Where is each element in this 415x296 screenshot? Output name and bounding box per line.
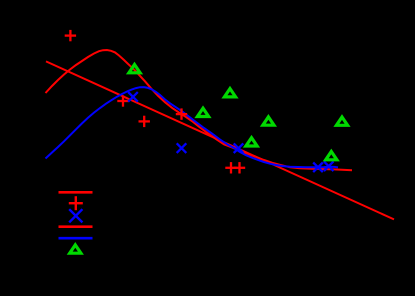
green triangle marker 6: [336, 117, 347, 125]
green triangle marker 5: [263, 117, 274, 125]
red peaked curve (model fit 1): [46, 50, 353, 170]
red straight line (linear fit): [46, 61, 394, 219]
blue x marker 4: [313, 163, 323, 173]
blue x marker 1: [128, 92, 138, 102]
legend entry 4: red line sample: [59, 225, 93, 228]
red + marker 3: [139, 116, 150, 127]
blue peaked curve (model fit 2): [46, 87, 339, 167]
red + marker 1: [65, 30, 76, 41]
green triangle marker 4: [246, 138, 257, 146]
green triangle marker 2: [197, 108, 208, 116]
blue x marker 5: [324, 161, 334, 171]
red + marker 4: [176, 108, 187, 119]
green triangle marker 1: [129, 65, 140, 73]
red + marker 6: [234, 162, 245, 173]
red + marker 5: [225, 162, 236, 173]
green triangle marker 3: [224, 89, 235, 97]
blue x marker 2: [177, 143, 187, 153]
green triangle marker 7: [326, 152, 337, 160]
legend entry 2: red + marker sample: [69, 196, 83, 210]
legend entry 6: green triangle marker sample: [70, 245, 81, 253]
blue x marker 3: [234, 143, 244, 153]
red + marker 2: [117, 95, 128, 106]
legend entry 1: red line sample: [59, 191, 93, 194]
legend entry 5: blue line sample: [59, 237, 93, 240]
legend entry 3: blue x marker sample: [69, 209, 82, 222]
